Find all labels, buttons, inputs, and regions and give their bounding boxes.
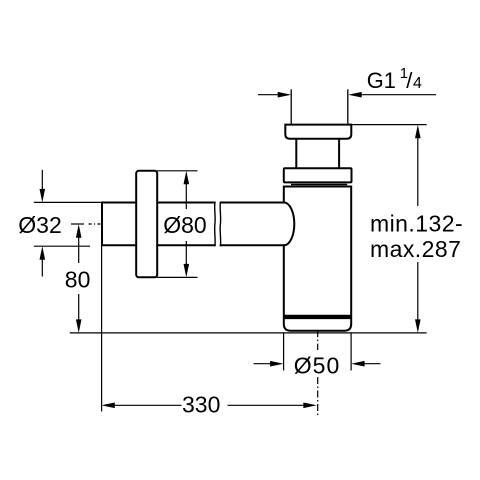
svg-text:G1: G1	[367, 68, 396, 93]
svg-text:min.132-: min.132-	[370, 211, 463, 237]
svg-text:80: 80	[65, 267, 91, 293]
svg-text:Ø50: Ø50	[294, 352, 340, 378]
svg-text:4: 4	[413, 75, 422, 92]
svg-text:Ø80: Ø80	[163, 212, 206, 238]
svg-text:Ø32: Ø32	[18, 212, 61, 238]
svg-text:330: 330	[182, 391, 220, 417]
svg-text:max.287: max.287	[370, 236, 461, 262]
